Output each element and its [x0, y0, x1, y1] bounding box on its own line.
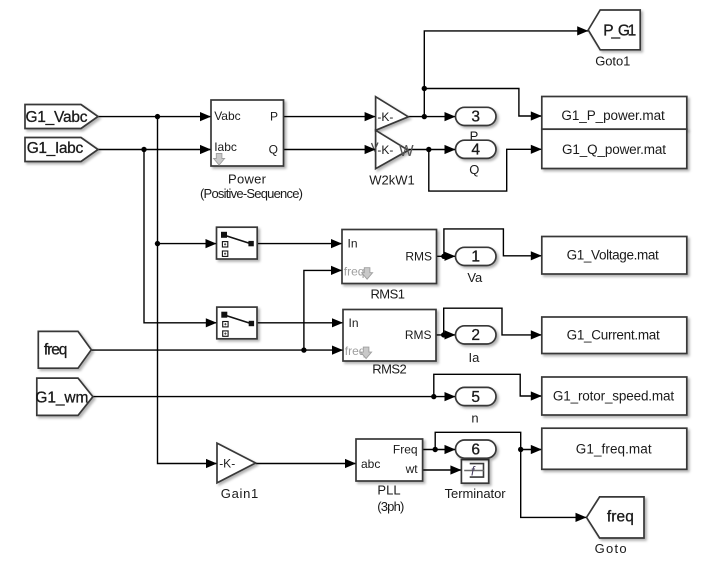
svg-text:Terminator: Terminator — [445, 486, 507, 501]
label P — [470, 129, 479, 144]
subsystem RMS1 — [342, 230, 437, 284]
wire Power Q to gain W2kW1b — [284, 149, 376, 151]
svg-text:wt: wt — [405, 462, 419, 476]
wire branch Iabc vertical down to Selector2 — [144, 150, 217, 323]
svg-text:G1_rotor_speed.mat: G1_rotor_speed.mat — [553, 389, 674, 404]
wire G1_Iabc to Power Iabc — [98, 149, 211, 151]
label Q — [469, 162, 479, 177]
arrowhead into RMS2 In — [332, 318, 343, 327]
value -K- upper — [377, 110, 393, 124]
svg-text:(3ph): (3ph) — [377, 499, 404, 514]
wire Gain1 to PLL abc — [256, 463, 356, 465]
junction at G1_freq branch — [518, 447, 523, 452]
outport 6 — [456, 440, 497, 458]
wire gain W2kW1a to outport 3 — [408, 116, 455, 118]
arrowhead into G1_P_power.mat — [531, 111, 542, 120]
from tag G1_Vabc — [25, 105, 98, 129]
gain W2kW1 upper triangle — [376, 97, 409, 131]
svg-text:freq: freq — [345, 344, 366, 358]
svg-text:G1_Q_power.mat: G1_Q_power.mat — [562, 142, 666, 157]
svg-text:Q: Q — [469, 162, 479, 177]
svg-text:Freq: Freq — [393, 442, 418, 456]
junction on PLL Freq output — [433, 447, 438, 452]
label Gain1 — [221, 486, 259, 501]
terminator block — [461, 460, 488, 484]
svg-text:-K-: -K- — [219, 456, 235, 470]
label PLL (3ph) — [377, 482, 404, 514]
tofile G1_P_power.mat — [542, 97, 687, 130]
junction on Q wire — [426, 147, 431, 152]
wire Selector2 to RMS2 In — [257, 322, 343, 324]
junction on G1_wm wire — [431, 394, 436, 399]
badge library-link arrow on RMS2 — [361, 347, 372, 359]
label Power — [200, 171, 303, 201]
junction on Iabc wire — [141, 147, 146, 152]
wire branch freq up to RMS1 freq — [304, 270, 342, 350]
svg-text:Vabc: Vabc — [214, 109, 240, 123]
svg-text:1: 1 — [471, 249, 480, 266]
svg-text:W2kW1: W2kW1 — [369, 172, 415, 187]
svg-text:Power: Power — [228, 171, 267, 186]
arrowhead into Goto1 — [577, 26, 588, 35]
svg-text:6: 6 — [471, 441, 480, 458]
wire branch Vabc vertical down to Gain1 — [158, 117, 218, 464]
arrowhead into outport 1 — [445, 252, 456, 261]
svg-text:n: n — [471, 411, 478, 426]
label RMS1 — [370, 286, 405, 301]
subsystem PLL (3ph) — [356, 439, 423, 481]
tofile G1_Current.mat — [542, 317, 687, 354]
arrowhead into Goto — [576, 513, 587, 522]
goto tag freq (Goto) — [587, 497, 645, 538]
svg-text:-K-: -K- — [377, 143, 393, 157]
tofile G1_rotor_speed.mat — [542, 377, 687, 415]
svg-text:2: 2 — [471, 327, 480, 344]
arrowhead into gain W2kW1b — [365, 145, 376, 154]
arrowhead into Terminator — [450, 465, 461, 474]
svg-text:PLL: PLL — [377, 482, 400, 497]
svg-text:G1_Voltage.mat: G1_Voltage.mat — [567, 248, 659, 263]
arrowhead into RMS1 In — [331, 239, 342, 248]
gain W2kW1 lower triangle — [376, 130, 409, 168]
wire G1_wm to outport 5 — [93, 396, 456, 398]
svg-text:RMS1: RMS1 — [370, 286, 405, 301]
subsystem Power — [211, 100, 284, 166]
wire PLL Freq to outport 6 — [423, 449, 456, 451]
arrowhead into gain W2kW1a — [365, 112, 376, 121]
selector Selector2 — [217, 307, 257, 339]
arrowhead into outport 2 — [445, 330, 456, 339]
label n — [471, 411, 478, 426]
badge library-link arrow on Power — [214, 154, 225, 166]
svg-text:-K-: -K- — [377, 110, 393, 124]
ghost tick V — [372, 143, 379, 151]
outport 1 — [456, 247, 497, 265]
arrowhead into RMS2 freq — [332, 346, 343, 355]
junction on RMS1 output — [441, 254, 446, 259]
label Terminator — [445, 486, 507, 501]
outport 5 — [456, 387, 497, 405]
arrowhead into RMS1 freq — [331, 266, 342, 275]
svg-text:freq: freq — [44, 342, 68, 359]
svg-text:abc: abc — [361, 457, 380, 471]
svg-text:In: In — [348, 237, 358, 251]
svg-text:freq: freq — [344, 264, 365, 278]
svg-text:G1_Vabc: G1_Vabc — [26, 109, 88, 126]
wire RMS2 to outport 2 — [436, 334, 456, 336]
svg-text:G1_Current.mat: G1_Current.mat — [567, 328, 660, 343]
svg-text:Goto1: Goto1 — [595, 53, 630, 68]
label Ia — [468, 350, 480, 365]
arrowhead into G1_Voltage.mat — [531, 251, 542, 260]
svg-text:G1_freq.mat: G1_freq.mat — [576, 442, 652, 457]
svg-text:Va: Va — [467, 270, 483, 285]
svg-text:5: 5 — [471, 389, 480, 406]
from tag freq — [38, 331, 91, 368]
wire gain W2kW1b to outport 4 — [408, 149, 455, 151]
label Goto — [595, 541, 627, 556]
outport 3 — [456, 107, 497, 125]
wire Power P to gain W2kW1a — [284, 116, 376, 118]
label Va — [467, 270, 483, 285]
badge library-link arrow on RMS1 — [362, 268, 373, 280]
label Goto1 — [595, 53, 630, 68]
label W2kW1 — [369, 172, 415, 187]
svg-text:4: 4 — [471, 142, 480, 159]
arrowhead into Power Vabc — [200, 112, 211, 121]
wire branch to Selector1 — [158, 243, 217, 245]
svg-text:3: 3 — [471, 109, 480, 126]
arrowhead into G1_freq.mat — [531, 445, 542, 454]
svg-text:Ia: Ia — [468, 350, 480, 365]
junction at P_power branch — [422, 86, 427, 91]
svg-text:Gain1: Gain1 — [221, 486, 259, 501]
tofile G1_Voltage.mat — [542, 237, 687, 275]
ghost text W — [399, 143, 414, 160]
wire bypass to G1_Current.mat — [444, 308, 542, 335]
arrowhead into Power Iabc — [200, 145, 211, 154]
arrowhead into Gain1 — [206, 459, 217, 468]
wire loop to G1_Q_power.mat — [429, 149, 542, 191]
tofile G1_freq.mat — [542, 428, 687, 469]
wire branch down to Goto freq — [521, 450, 587, 518]
svg-text:G1_wm: G1_wm — [35, 390, 88, 407]
svg-text:RMS: RMS — [405, 328, 432, 342]
tofile G1_Q_power.mat — [542, 129, 687, 168]
arrowhead into outport 4 — [445, 145, 456, 154]
wire bypass to G1_freq.mat — [435, 432, 542, 449]
wire bypass to G1_Voltage.mat — [444, 229, 542, 256]
arrowhead into PLL abc — [345, 459, 356, 468]
arrowhead into Selector2 — [206, 318, 217, 327]
junction on P wire — [422, 114, 427, 119]
junction on freq wire — [301, 347, 306, 352]
junction on RMS2 output — [441, 332, 446, 337]
svg-text:freq: freq — [607, 509, 634, 526]
junction on Vabc wire — [155, 114, 160, 119]
value -K- lower — [377, 143, 393, 157]
wire G1_Vabc to Power Vabc — [98, 116, 211, 118]
gain Gain1 — [217, 443, 256, 483]
svg-text:RMS2: RMS2 — [372, 362, 407, 377]
svg-text:G1_Iabc: G1_Iabc — [27, 140, 84, 157]
svg-text:P_G1: P_G1 — [603, 23, 636, 40]
arrowhead into G1_Q_power.mat — [531, 145, 542, 154]
arrowhead into outport 3 — [445, 112, 456, 121]
arrowhead into Selector1 — [206, 239, 217, 248]
svg-text:G1_P_power.mat: G1_P_power.mat — [561, 108, 665, 123]
wire RMS1 to outport 1 — [437, 255, 456, 257]
selector Selector1 — [217, 227, 258, 259]
subsystem RMS2 — [343, 310, 436, 362]
svg-text:(Positive-Sequence): (Positive-Sequence) — [200, 186, 303, 201]
svg-text:P: P — [270, 110, 278, 124]
wire freq tag to RMS2 freq — [91, 349, 343, 351]
outport 2 — [456, 326, 497, 344]
label RMS2 — [372, 362, 407, 377]
wire bypass to G1_rotor_speed.mat — [434, 374, 542, 396]
from tag G1_wm — [35, 378, 93, 415]
svg-text:Iabc: Iabc — [214, 140, 237, 154]
arrowhead into G1_Current.mat — [531, 330, 542, 339]
junction at Selector1 branch — [155, 241, 160, 246]
wire Selector1 to RMS1 In — [257, 243, 342, 245]
arrowhead into G1_rotor_speed.mat — [531, 391, 542, 400]
wire branch up to Goto1 — [424, 31, 588, 117]
svg-text:Q: Q — [269, 142, 278, 156]
from tag G1_Iabc — [25, 138, 98, 162]
arrowhead into outport 6 — [445, 445, 456, 454]
svg-text:RMS: RMS — [405, 250, 432, 264]
outport 4 — [456, 140, 497, 158]
svg-text:W: W — [399, 143, 414, 160]
svg-text:Goto: Goto — [595, 541, 627, 556]
value -K- Gain1 — [219, 456, 235, 470]
goto tag P_G1 (Goto1) — [588, 10, 640, 50]
arrowhead into outport 5 — [445, 392, 456, 401]
wire PLL wt to Terminator — [423, 469, 462, 471]
wire branch to G1_P_power.mat — [424, 89, 542, 117]
svg-text:In: In — [349, 316, 359, 330]
